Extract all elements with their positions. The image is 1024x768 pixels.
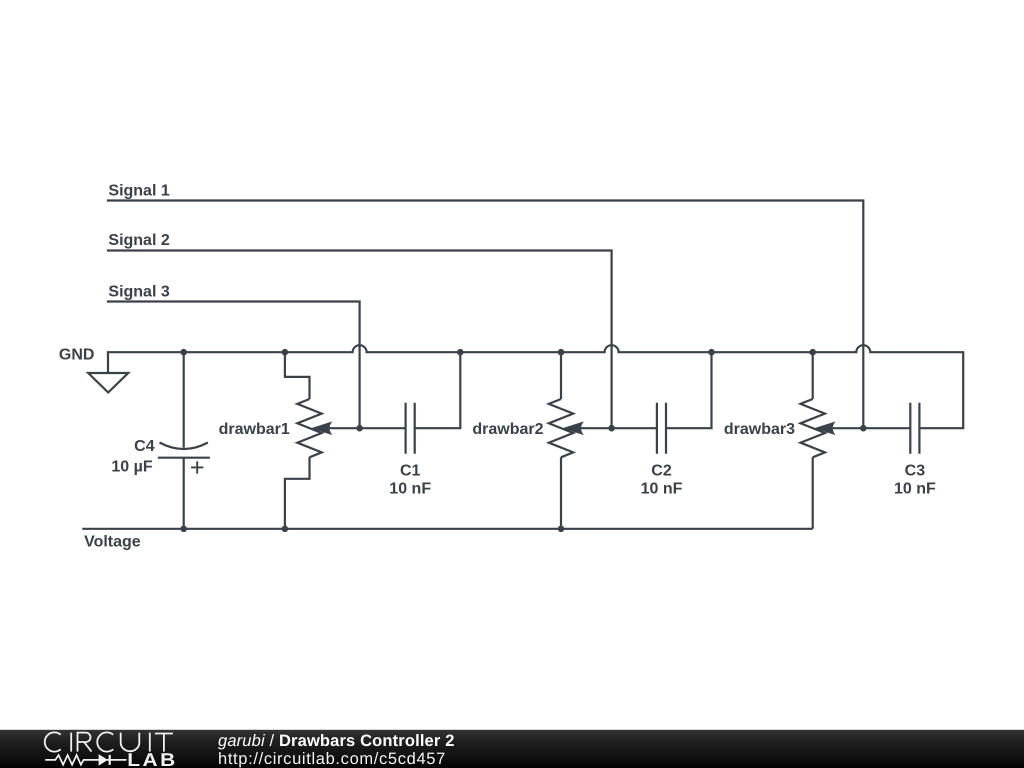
junction dot C1-GND <box>457 349 464 356</box>
svg-text:Signal 1: Signal 1 <box>108 183 169 200</box>
svg-text:10 nF: 10 nF <box>389 481 431 498</box>
junction dot drawbar1-GND <box>282 349 289 356</box>
junction dot C2-GND <box>708 349 715 356</box>
svg-text:Signal 2: Signal 2 <box>108 232 169 249</box>
capacitor C2 <box>657 352 712 454</box>
capacitor C3 <box>910 403 919 454</box>
footer bar <box>0 730 1024 768</box>
wire GND rail with hops <box>107 345 963 428</box>
ground <box>88 352 128 392</box>
svg-text:Signal 3: Signal 3 <box>108 284 169 301</box>
junction dot node Signal2-wiper2 <box>608 425 615 432</box>
svg-text:10 nF: 10 nF <box>641 481 683 498</box>
junction dot drawbar1-Voltage <box>282 526 289 533</box>
wire Signal 1 <box>107 201 863 429</box>
svg-text:10 µF: 10 µF <box>111 459 152 476</box>
potentiometer drawbar1 <box>285 352 406 529</box>
potentiometer drawbar2 <box>549 352 657 529</box>
svg-text:C4: C4 <box>134 438 155 455</box>
junction dot drawbar2-GND <box>558 349 565 356</box>
capacitor C4 <box>158 352 210 529</box>
svg-text:C3: C3 <box>905 462 926 479</box>
wire Signal 3 <box>107 302 360 429</box>
footer url <box>218 750 446 768</box>
svg-text:C1: C1 <box>400 462 421 479</box>
svg-text:drawbar3: drawbar3 <box>724 421 795 438</box>
junction dot C4-Voltage <box>180 526 187 533</box>
wire Signal 2 <box>107 251 612 429</box>
svg-text:drawbar1: drawbar1 <box>219 421 290 438</box>
wire Voltage rail <box>82 528 812 530</box>
svg-text:http://circuitlab.com/c5cd457: http://circuitlab.com/c5cd457 <box>218 750 446 768</box>
potentiometer drawbar3 <box>801 352 911 529</box>
svg-text:10 nF: 10 nF <box>894 481 936 498</box>
svg-text:drawbar2: drawbar2 <box>472 421 543 438</box>
logo CIRCUIT text <box>45 732 173 751</box>
footer title garubi / Drawbars Controller 2 <box>218 732 455 750</box>
logo resistor-diode squiggle <box>45 755 126 765</box>
junction dot drawbar2-Voltage <box>558 526 565 533</box>
svg-text:garubi / Drawbars Controller 2: garubi / Drawbars Controller 2 <box>218 732 455 750</box>
junction dot node Signal1-wiper3 <box>860 425 867 432</box>
junction dot C4-GND <box>180 349 187 356</box>
junction dot drawbar3-GND <box>809 349 816 356</box>
svg-text:Voltage: Voltage <box>84 534 141 551</box>
logo LAB text <box>127 749 177 768</box>
svg-text:LAB: LAB <box>127 749 177 768</box>
capacitor C1 <box>406 352 461 454</box>
svg-text:C2: C2 <box>651 462 672 479</box>
junction dot node Signal3-wiper1 <box>356 425 363 432</box>
svg-text:GND: GND <box>59 346 95 363</box>
